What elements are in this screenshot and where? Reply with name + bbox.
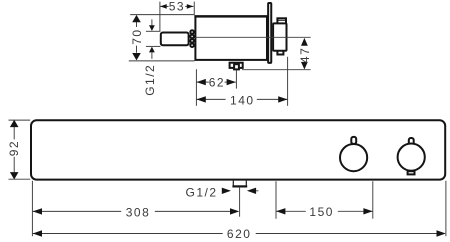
dim 308: right arrowhead xyxy=(230,208,239,214)
dim 308: left arrowhead xyxy=(33,208,42,214)
front G1/2: right tail line xyxy=(256,190,258,192)
svg-text:47: 47 xyxy=(298,47,312,63)
side view: centerline xyxy=(195,36,311,38)
dim 62: right arrowhead xyxy=(227,79,236,85)
dim 620: dimension line xyxy=(33,233,223,235)
dim 308/620: shared left extension line xyxy=(31,181,33,236)
dim 92: down arrowhead xyxy=(10,172,19,179)
dim 308: dimension line xyxy=(33,210,122,212)
dim 620: right extension line xyxy=(445,181,447,236)
side view: handle (knob) xyxy=(273,23,286,50)
dim 53: dimension line xyxy=(160,5,169,7)
pipe G1/2 callout: top tick at pipe top xyxy=(146,30,161,32)
dim 62/140: shared left extension line xyxy=(195,69,197,106)
side view: handle top tab divider xyxy=(278,19,287,21)
front view: G1/2 fitting right edge xyxy=(245,181,247,187)
pipe G1/2 callout: top leader stem xyxy=(151,19,153,25)
side view: handle bottom tab xyxy=(277,50,283,55)
side view: pipe ridge 1 xyxy=(190,30,194,34)
front G1/2: left-pointing arrowhead xyxy=(247,188,256,194)
front G1/2: right-pointing arrowhead xyxy=(222,188,231,194)
dim 150: right arrowhead xyxy=(363,208,372,214)
dim 92: top extension line xyxy=(9,119,31,121)
front view: G1/2 fitting left edge xyxy=(232,181,234,187)
dim 140: right extension line (handle tip) xyxy=(287,57,289,106)
dim 92: dimension line stems xyxy=(13,127,15,140)
side view: bottom G1/2 fitting inner thread xyxy=(234,64,239,69)
side view: shower outlet pipe xyxy=(161,33,189,46)
front view: left knob xyxy=(340,144,367,171)
front view: right knob top tab xyxy=(409,138,414,145)
svg-text:308: 308 xyxy=(126,205,151,219)
svg-text:G1/2: G1/2 xyxy=(186,185,218,199)
dim 47: up arrowhead at centerline xyxy=(301,38,308,46)
dim 62: fitting center extension line xyxy=(235,70,237,88)
dim 620: right arrowhead xyxy=(437,230,446,236)
dim 70: up arrowhead xyxy=(132,15,141,22)
dim 150: dimension line xyxy=(276,210,306,212)
svg-text:140: 140 xyxy=(230,93,255,107)
dim 150: left arrowhead xyxy=(276,208,285,214)
pipe G1/2 callout: bottom tick at pipe bottom xyxy=(146,45,161,47)
side view: wall plate xyxy=(268,3,271,63)
dim 92: up arrowhead xyxy=(10,120,19,127)
side view: thick top edge of body xyxy=(194,15,268,17)
pipe G1/2 callout: down arrowhead xyxy=(149,25,155,31)
pipe G1/2 callout: up arrowhead xyxy=(149,47,155,53)
svg-text:G1/2: G1/2 xyxy=(143,64,157,96)
dim 70: top extension line xyxy=(130,14,194,16)
front view: G1/2 fitting bottom edge xyxy=(232,185,247,187)
dim 150: left extension line xyxy=(275,181,277,219)
side view: pipe ridge 3 xyxy=(190,39,194,43)
dim 140: dimension line xyxy=(197,98,226,100)
side view: handle top tab xyxy=(277,18,286,23)
dim 53: right arrowhead xyxy=(187,4,194,9)
dim 53: right extension line (body front) xyxy=(193,2,195,16)
side view: body of thermostat (top drawing) xyxy=(195,17,267,60)
front view: right knob bottom tab xyxy=(408,171,415,174)
dim 53: left extension line (pipe front) xyxy=(159,2,161,32)
dim 70: bottom extension line xyxy=(129,60,195,62)
dim 92: bottom extension line xyxy=(9,178,31,180)
front view: left knob top tab xyxy=(351,137,356,144)
dim 70: dimension line stems xyxy=(136,22,138,27)
side view: bottom G1/2 fitting outer hex xyxy=(230,63,243,68)
dim 140: left arrowhead xyxy=(197,96,206,102)
side view: pipe ridge 2 xyxy=(190,35,194,39)
svg-text:53: 53 xyxy=(169,0,185,14)
dim 53: left arrowhead xyxy=(160,4,167,9)
svg-text:92: 92 xyxy=(7,140,21,156)
svg-text:620: 620 xyxy=(227,227,252,241)
dim 620: left arrowhead xyxy=(33,230,42,236)
dim 62: dimension line xyxy=(197,81,209,83)
svg-text:150: 150 xyxy=(309,205,334,219)
dim 47: down arrowhead at fitting bottom line xyxy=(301,62,308,70)
side view: 47 reference line at fitting bottom xyxy=(242,69,311,71)
front view: fitting center line xyxy=(239,187,241,217)
svg-text:62: 62 xyxy=(209,75,225,89)
dim 140: right arrowhead xyxy=(278,96,287,102)
dim 150: right extension line xyxy=(372,181,374,219)
dim 62: left arrowhead xyxy=(197,79,206,85)
front view: right knob xyxy=(398,144,425,171)
front view: mixer bar (bottom drawing) xyxy=(31,120,445,179)
pipe G1/2 callout: bottom leader stem xyxy=(151,52,153,59)
dim 70: down arrowhead xyxy=(132,53,141,60)
side view: pipe ridge 4 xyxy=(190,43,194,47)
svg-text:70: 70 xyxy=(130,28,144,44)
